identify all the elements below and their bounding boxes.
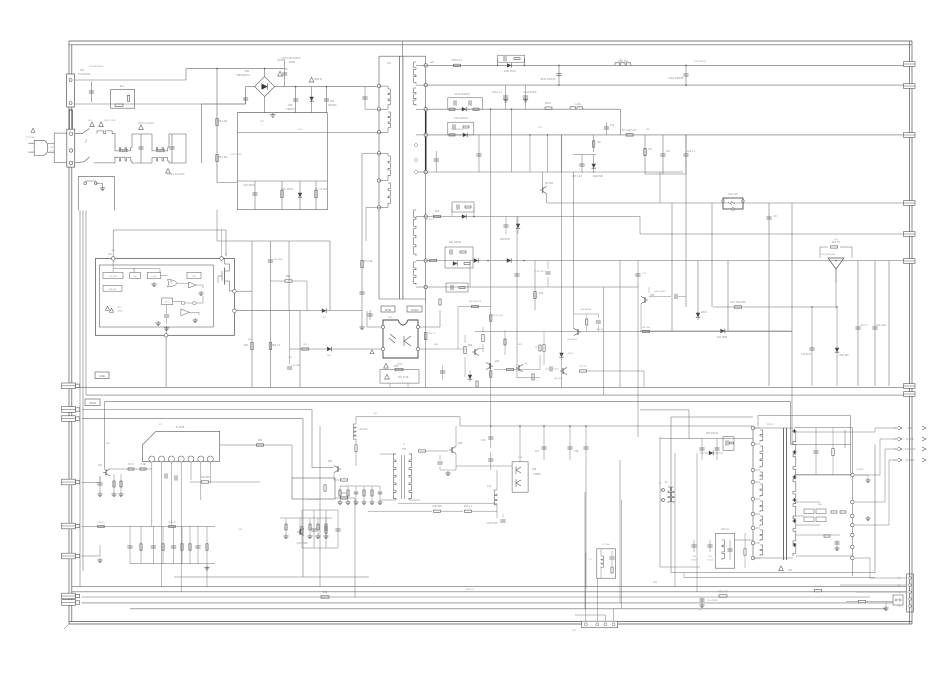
U2 pin wires down bbox=[151, 462, 153, 472]
long wire from mid rails to bottom right bbox=[844, 430, 846, 448]
plug outer box bbox=[54, 133, 68, 162]
svg-text:R60: R60 bbox=[286, 275, 291, 278]
U1 gate bbox=[167, 280, 177, 287]
svg-text:R71 4148: R71 4148 bbox=[398, 376, 409, 379]
T1 secondary pin 8 bbox=[424, 83, 427, 86]
cap C63 riser bbox=[288, 241, 290, 311]
wire y=415.5 right bbox=[758, 415, 851, 417]
svg-text:R4 2.4E: R4 2.4E bbox=[364, 260, 373, 263]
svg-text:R83: R83 bbox=[258, 439, 263, 442]
svg-text:COLD: COLD bbox=[89, 401, 96, 405]
svg-text:T3.15A/250: T3.15A/250 bbox=[78, 73, 91, 76]
IC U2 box bbox=[142, 431, 219, 461]
svg-text:R89 L05: R89 L05 bbox=[168, 522, 176, 524]
svg-text:R20 4.7: R20 4.7 bbox=[426, 219, 434, 221]
wires from U2 to right bbox=[220, 444, 292, 446]
rail +B1 y=65.4 bbox=[426, 64, 904, 66]
svg-text:LIVE: LIVE bbox=[99, 374, 105, 378]
smoothing capacitor C1 bbox=[295, 87, 297, 113]
gnd near CN4 bbox=[885, 606, 887, 608]
pin8 snubber cluster bbox=[446, 283, 468, 292]
U1 top node wire bbox=[112, 261, 114, 273]
T2 bottom wire bbox=[753, 557, 793, 559]
rectifier diode D201 with snubber bbox=[454, 64, 461, 66]
input terminal block bbox=[67, 129, 75, 167]
U1 drv block bbox=[187, 273, 201, 279]
svg-text:RR2 TC-2EL: RR2 TC-2EL bbox=[104, 120, 116, 122]
svg-text:C38: C38 bbox=[574, 450, 579, 453]
R divider pair bbox=[504, 330, 506, 355]
svg-text:T82: T82 bbox=[788, 569, 793, 572]
mid bus rail C y=401.7 bbox=[105, 401, 791, 403]
photocoupler PC2 bbox=[723, 198, 743, 209]
svg-text:R20: R20 bbox=[435, 210, 440, 213]
bottom bus 5 y=608.8 bbox=[130, 608, 886, 610]
R on bus3 bbox=[321, 596, 329, 598]
diode on rail 310.7 bbox=[322, 309, 326, 313]
cluster wires bbox=[440, 348, 465, 350]
svg-text:R88 (R): R88 (R) bbox=[97, 522, 104, 524]
svg-text:R214: R214 bbox=[545, 102, 551, 105]
svg-text:D201 BYRL: D201 BYRL bbox=[504, 70, 517, 73]
pin8 wire bbox=[426, 286, 470, 288]
svg-text:R12 5.1: R12 5.1 bbox=[832, 241, 841, 244]
connector y=556 wire bbox=[82, 555, 101, 557]
svg-text:CX3 0.22-ACX2: CX3 0.22-ACX2 bbox=[167, 173, 185, 176]
bridge left feed bbox=[246, 86, 255, 88]
cap on Q52 emitter bbox=[437, 461, 442, 463]
coupling transformer T4 bbox=[662, 489, 665, 492]
R on bus right bbox=[719, 595, 727, 597]
svg-text:C16: C16 bbox=[610, 124, 615, 127]
svg-text:FS1: FS1 bbox=[80, 69, 85, 72]
SCR Q3 triangle bbox=[828, 258, 844, 269]
long wire from snubber to U1 row bbox=[217, 240, 330, 242]
T2 secondary pin 16 bbox=[851, 556, 855, 560]
right edge connector at y=261 bbox=[904, 259, 916, 264]
cap cluster right x645-686 bbox=[644, 135, 646, 174]
mid feedback rail y=331.5 bbox=[475, 331, 792, 333]
rail 5 y=172 bbox=[426, 171, 683, 173]
rail 4 y=134.9 bbox=[426, 134, 904, 136]
T2 primary pin 7 bbox=[751, 526, 755, 530]
U2 pin 6 bbox=[198, 456, 204, 462]
cap C206 at 686 bbox=[685, 65, 687, 85]
R between rows bbox=[593, 135, 595, 152]
T1 primary winding bbox=[388, 89, 390, 106]
svg-text:L71: L71 bbox=[588, 559, 591, 561]
svg-text:R75 1K: R75 1K bbox=[580, 366, 587, 368]
svg-text:BK1: BK1 bbox=[50, 147, 54, 149]
connector CN3 strip bbox=[907, 574, 914, 612]
cluster resistors bbox=[464, 347, 466, 354]
caps under rail426 bbox=[490, 426, 492, 448]
rail y=203 to connector bbox=[547, 202, 904, 204]
right verticals from rails down bbox=[671, 203, 673, 331]
extra diode on rail7 bbox=[507, 258, 511, 262]
svg-text:470u/5: 470u/5 bbox=[691, 560, 697, 562]
transformer T2 left rail bbox=[752, 428, 754, 558]
T1 core bbox=[399, 56, 401, 299]
T1 primary pin 2 bbox=[377, 108, 380, 111]
feed wires bbox=[659, 437, 661, 500]
wire to bridge top bbox=[186, 68, 285, 70]
U1 comparator circles bbox=[181, 301, 185, 305]
bottom bus 1 y=586.7 bbox=[72, 586, 906, 588]
feedback box bbox=[292, 478, 335, 499]
block top wire y=438 bbox=[660, 438, 753, 440]
T2 primary pin 9 bbox=[751, 556, 755, 560]
riser x=573.7 bbox=[573, 172, 575, 314]
svg-text:R62: R62 bbox=[244, 344, 249, 347]
riser bundle bottom-right bbox=[659, 500, 661, 567]
bias rows under Q51 bbox=[340, 485, 380, 487]
safety triangle bbox=[90, 122, 95, 127]
U1 MOSFET bbox=[224, 268, 226, 285]
svg-text:470u/5: 470u/5 bbox=[707, 560, 713, 562]
svg-text:(L)FOCUS: (L)FOCUS bbox=[905, 449, 916, 451]
svg-text:Q52: Q52 bbox=[458, 442, 463, 445]
pin8 wire extension bbox=[470, 286, 638, 288]
caps lower right block bbox=[811, 307, 813, 386]
fuse element bbox=[69, 110, 72, 130]
capacitor across bridge bbox=[245, 97, 247, 104]
diode pair cluster row3 bbox=[448, 98, 483, 109]
controller IC U1 outer box bbox=[95, 259, 234, 336]
svg-text:R90 JR5: R90 JR5 bbox=[200, 476, 210, 479]
transistor Q65 right bbox=[644, 297, 646, 303]
U1 gnd lower bbox=[194, 318, 196, 320]
svg-text:CX2 0.47M: CX2 0.47M bbox=[231, 154, 242, 156]
svg-text:R24: R24 bbox=[539, 292, 544, 295]
U2 pin 2 bbox=[159, 456, 165, 462]
svg-text:C40 0.015: C40 0.015 bbox=[486, 522, 498, 525]
sparse link wires right-mid bbox=[299, 311, 301, 387]
wire from U1 top to transformer bbox=[221, 230, 223, 257]
wires down-left nest bbox=[79, 210, 81, 586]
T1 bold limb bbox=[425, 107, 427, 174]
lower transistor Q66 bbox=[562, 368, 564, 374]
svg-text:4.1E: 4.1E bbox=[141, 463, 146, 466]
U2 pin 4 bbox=[178, 456, 184, 462]
wire y=306.6 with R67 bbox=[458, 306, 491, 308]
line filter choke LF1 bbox=[115, 148, 132, 151]
R on rail 331 right bbox=[643, 330, 650, 332]
T2 primary pin 5 bbox=[751, 497, 755, 501]
svg-text:R68 680B/4: R68 680B/4 bbox=[581, 309, 592, 311]
filter rows under U2 bbox=[82, 526, 216, 528]
U2 pin 1 bbox=[149, 456, 155, 462]
right edge connector at y=394 bbox=[904, 392, 916, 397]
svg-text:(L)GND: (L)GND bbox=[906, 439, 914, 441]
U2 pin 5 bbox=[188, 456, 194, 462]
resistor R93 bbox=[162, 527, 164, 564]
right caps on verticals bbox=[857, 261, 859, 387]
svg-text:C11 517u: C11 517u bbox=[801, 353, 812, 356]
triangle marks near PC1 bbox=[384, 363, 389, 368]
wires into PC1 bbox=[367, 326, 381, 328]
svg-text:R69 39E: R69 39E bbox=[642, 327, 650, 329]
capacitor C55 bbox=[379, 486, 381, 500]
opto bias box bbox=[380, 370, 419, 384]
SCR drop wire bbox=[835, 269, 837, 307]
left edge connector at y=602.5 bbox=[62, 600, 76, 606]
rail segment y=409.9 bbox=[640, 409, 689, 411]
R under box bbox=[744, 549, 746, 556]
verticals row4 down bbox=[546, 135, 548, 172]
node bbox=[216, 68, 218, 70]
drain wire pin3 bbox=[237, 131, 379, 133]
choke L36 bbox=[353, 424, 356, 440]
svg-text:RR2 TC-2EL: RR2 TC-2EL bbox=[114, 157, 127, 159]
resistor R43 bbox=[325, 518, 327, 534]
wire y=511 with snubber resistors bbox=[368, 510, 432, 512]
wire N to bridge bbox=[201, 104, 203, 163]
svg-text:C05: C05 bbox=[288, 104, 293, 107]
lower-left sub cluster bbox=[280, 517, 332, 519]
right edge connector at y=203 bbox=[904, 201, 916, 206]
T1 secondary pin 14 bbox=[424, 285, 427, 288]
svg-text:R7 1.6E-1.2K: R7 1.6E-1.2K bbox=[622, 129, 637, 132]
wire CN2 riser bundle bbox=[585, 553, 587, 621]
R one more bbox=[532, 374, 534, 380]
svg-text:C16 1307/16: C16 1307/16 bbox=[454, 117, 468, 120]
long riser x=490.8 bbox=[490, 172, 492, 426]
svg-text:C214 294F/16: C214 294F/16 bbox=[454, 93, 470, 96]
varistor riser bbox=[216, 69, 218, 183]
rail 3 y=109.2 bbox=[426, 108, 621, 110]
cap C6 vertical at 284.7 bbox=[284, 60, 286, 87]
mid bus rail E y=418.6 bbox=[82, 418, 303, 420]
T1 winding dots bbox=[414, 143, 418, 147]
filter output riser bbox=[185, 134, 187, 163]
capacitor C97 bbox=[197, 527, 199, 564]
T2 top connect bbox=[753, 427, 793, 429]
svg-text:ZD6 B2: ZD6 B2 bbox=[596, 329, 604, 331]
wire y=503 bbox=[398, 502, 497, 504]
svg-text:C20 0.01/470: C20 0.01/470 bbox=[706, 600, 717, 602]
rail GND1 y=85.1 bbox=[426, 84, 904, 86]
svg-text:C60 680R: C60 680R bbox=[273, 259, 283, 261]
T1 secondary pin 10 bbox=[424, 133, 427, 136]
U1 osc block bbox=[162, 298, 173, 305]
R over SCR bbox=[820, 247, 828, 258]
U1 pins bbox=[111, 257, 115, 261]
diode mid right wire y=331 bbox=[640, 330, 792, 332]
transistor Q67 bbox=[518, 365, 520, 371]
X-capacitor CX2 bbox=[139, 125, 144, 130]
capacitor C94 bbox=[173, 527, 175, 564]
svg-text:C37: C37 bbox=[535, 450, 540, 453]
mid bus rail B y=395.1 bbox=[86, 394, 904, 396]
rail y=260.5 continues to right connector bbox=[828, 260, 904, 262]
svg-text:C84 220/10: C84 220/10 bbox=[706, 432, 719, 435]
bridge top feed bbox=[264, 69, 266, 77]
svg-text:LOGIC: LOGIC bbox=[151, 276, 157, 278]
switch transistor Q52 bbox=[451, 447, 453, 453]
resistor R96 bbox=[189, 527, 191, 564]
svg-text:L36 10u: L36 10u bbox=[359, 428, 368, 431]
fuse FB2 symbol bbox=[99, 122, 104, 127]
T2 secondary bus bbox=[851, 428, 853, 577]
svg-text:C16 294F/16: C16 294F/16 bbox=[451, 129, 464, 131]
feedback wire y=310.7 extend bbox=[300, 310, 362, 312]
R75 wire to riser bbox=[580, 370, 587, 372]
svg-text:C204 1000/35: C204 1000/35 bbox=[668, 77, 684, 80]
svg-text:ZD14: ZD14 bbox=[701, 311, 708, 314]
U1 opamp B bbox=[181, 309, 190, 316]
svg-text:R63 1.2: R63 1.2 bbox=[272, 344, 281, 347]
svg-text:C04 0.0047/1KVF: C04 0.0047/1KVF bbox=[281, 57, 301, 60]
power transformer T1 outline bbox=[379, 55, 426, 57]
transistor Q201 bbox=[542, 187, 544, 193]
row riser to bus bbox=[206, 564, 208, 587]
resistor R54 bbox=[371, 486, 373, 500]
bottom bus 4 y=602.9 bbox=[82, 602, 894, 604]
connector CN2 bbox=[582, 621, 618, 628]
controller IC U1 inner box bbox=[99, 265, 213, 327]
connector wire y=482.5 bbox=[82, 482, 101, 484]
left edge connector at y=385.8 bbox=[62, 383, 76, 389]
safety triangle near bridge bbox=[278, 71, 283, 76]
left edge connector at y=526 bbox=[62, 523, 76, 529]
row4 cluster bbox=[448, 122, 474, 135]
svg-text:C22 1.1: C22 1.1 bbox=[687, 150, 696, 153]
svg-text:R 4.7B: R 4.7B bbox=[815, 586, 822, 588]
cap at 606 row4 bbox=[605, 122, 607, 135]
svg-text:150/450: 150/450 bbox=[328, 104, 337, 107]
RC parts on 438 block bbox=[701, 439, 703, 460]
svg-text:C61 6R1/B25F: C61 6R1/B25F bbox=[89, 66, 104, 68]
caps between row2 row3 bbox=[505, 85, 507, 109]
pin6 coupling bbox=[366, 206, 379, 208]
U2 pin 7 bbox=[207, 456, 213, 462]
T1 primary pin 1 bbox=[377, 84, 380, 87]
U1 opamp A bbox=[189, 282, 197, 288]
fuse F1 input block bbox=[67, 74, 75, 107]
primary ground rail bbox=[237, 112, 327, 114]
svg-text:R31 (R)1.7B: R31 (R)1.7B bbox=[491, 315, 503, 317]
U1 safety triangles bbox=[106, 306, 110, 310]
pin4 coupling bbox=[362, 152, 379, 154]
svg-text:R41 1.1: R41 1.1 bbox=[464, 505, 473, 508]
bridge rectifier D1 bbox=[255, 77, 275, 97]
gnd marks T2 bbox=[867, 478, 869, 480]
svg-text:L40: L40 bbox=[487, 485, 492, 488]
wires to T2 bbox=[734, 539, 753, 541]
ground under rows bbox=[206, 566, 208, 568]
svg-text:R67 480L/2W: R67 480L/2W bbox=[469, 301, 481, 303]
bottom bus 3 y=597 bbox=[82, 596, 871, 598]
T2 primary pin 4 bbox=[751, 480, 755, 484]
R int bbox=[439, 299, 441, 305]
capacitor C90 bbox=[129, 527, 131, 564]
caps at box bottom bbox=[693, 540, 695, 552]
filter coil L201 bbox=[615, 63, 632, 66]
L-C output box bbox=[715, 533, 734, 568]
long risers mid bbox=[561, 135, 563, 387]
wires to arrows bbox=[853, 431, 875, 433]
zeners under rail7 bbox=[516, 217, 518, 378]
svg-text:RS05: RS05 bbox=[289, 61, 296, 64]
svg-text:CP1 681/2: CP1 681/2 bbox=[243, 184, 255, 187]
wire N line bbox=[75, 103, 246, 105]
resistor R41 bbox=[309, 518, 311, 534]
rail7 y=260.5 bbox=[426, 260, 828, 262]
output header arrows bbox=[893, 427, 898, 429]
T2 secondary pin 12 bbox=[851, 514, 855, 518]
U2 pin 3 bbox=[168, 456, 174, 462]
caps in T2 right bbox=[794, 427, 852, 429]
capacitor C52 bbox=[355, 486, 357, 500]
svg-text:IC6: IC6 bbox=[108, 253, 112, 256]
T2 primary pin 2 bbox=[751, 442, 755, 446]
cluster diodes bbox=[469, 370, 471, 382]
driver transformer T3 bbox=[393, 454, 396, 500]
clamp across pins 1-2 bbox=[364, 87, 366, 110]
svg-text:C20 100/35: C20 100/35 bbox=[694, 61, 706, 63]
snubber parts bbox=[254, 181, 256, 210]
wire x362 down bbox=[361, 153, 363, 325]
svg-text:D20 BYD: D20 BYD bbox=[500, 238, 510, 241]
svg-text:R95 1.8: R95 1.8 bbox=[466, 589, 474, 591]
svg-text:C36: C36 bbox=[481, 439, 486, 442]
svg-text:R13 TKGL/BK: R13 TKGL/BK bbox=[730, 301, 746, 304]
T2 primary pin 6 bbox=[751, 512, 755, 516]
rail E corner down bbox=[302, 419, 304, 577]
svg-text:Q65 C1815: Q65 C1815 bbox=[654, 291, 666, 293]
T1 primary pin 5 bbox=[377, 179, 380, 182]
left edge connector at y=482 bbox=[62, 479, 76, 485]
svg-text:R99 4.7E: R99 4.7E bbox=[718, 591, 728, 594]
wire y=349 to PC1 bbox=[290, 348, 382, 350]
left input transistor Q71 bbox=[105, 469, 107, 475]
right section outline box bbox=[670, 417, 672, 573]
bus risers from mid section bbox=[319, 426, 321, 587]
svg-text:T35: T35 bbox=[402, 448, 407, 451]
rail D corner down to driver stage bbox=[311, 410, 313, 468]
T2 secondary pin 14 bbox=[851, 533, 855, 537]
T2 primary pin 1 bbox=[751, 426, 755, 430]
relay box BR1 bbox=[111, 90, 135, 109]
T2 secondary pin 15 bbox=[851, 545, 855, 549]
R into CN4 bbox=[859, 600, 866, 602]
bottom bus 2 y=591.8 bbox=[72, 591, 906, 593]
svg-text:Q64 A1015: Q64 A1015 bbox=[567, 338, 578, 341]
V-R bundle mid-low bbox=[301, 510, 303, 548]
svg-text:R211 1500/35: R211 1500/35 bbox=[541, 78, 557, 81]
cap C-2 bbox=[442, 365, 444, 380]
T2 secondary pin 13 bbox=[851, 523, 855, 527]
main B+ wire bridge to transformer bbox=[275, 86, 379, 88]
svg-text:R98: R98 bbox=[323, 591, 328, 594]
U1 gnd small bbox=[153, 282, 155, 284]
output filter box L82b bbox=[597, 549, 616, 578]
left edge connector at y=556 bbox=[62, 553, 76, 559]
T1 primary pin 6 bbox=[377, 206, 380, 209]
svg-text:+B7: +B7 bbox=[430, 61, 435, 64]
drive stage transistor Q51 bbox=[337, 466, 339, 472]
chopper base wire bbox=[456, 465, 512, 467]
components under snubber box bbox=[216, 210, 218, 241]
safety triangle CX bbox=[166, 168, 171, 173]
svg-text:RL1: RL1 bbox=[120, 85, 125, 88]
degauss relay box bbox=[79, 176, 115, 210]
svg-text:D203 MR: D203 MR bbox=[593, 175, 603, 178]
wire y=500 mid bbox=[335, 497, 355, 499]
right edge connector at y=234 bbox=[904, 232, 916, 237]
section outline bottom y=577 bbox=[174, 576, 369, 578]
